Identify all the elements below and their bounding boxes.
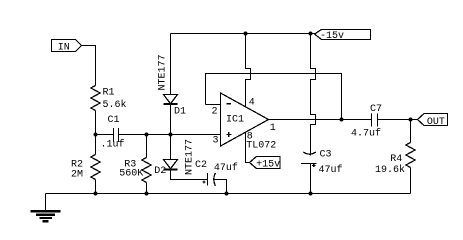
junction dot R2 bottom [93, 191, 97, 195]
junction dot pin4/-15v rail [243, 31, 247, 35]
svg-text:47uf: 47uf [319, 164, 343, 176]
junction dot R3 top [144, 132, 148, 136]
node -15v (power tag) [315, 30, 371, 43]
svg-text:4: 4 [249, 98, 255, 109]
wire horizontal rail y=134 from R2 node to C1 left plate [96, 134, 114, 136]
svg-text:D2: D2 [154, 166, 166, 177]
capacitor C3 (polarized) [301, 152, 316, 167]
svg-text:2M: 2M [71, 170, 83, 181]
wire C2 to ground rail [214, 180, 227, 194]
wire D2 anode from rail [170, 135, 172, 160]
wire C7 to OUT tag [378, 119, 418, 121]
junction dot C3/-15v rail [308, 31, 312, 35]
junction dot feedback/output [339, 117, 343, 121]
svg-text:D1: D1 [174, 107, 186, 118]
svg-text:R4: R4 [390, 154, 402, 165]
wire D1 cathode to y=134 rail [170, 105, 172, 135]
svg-text:C7: C7 [370, 104, 382, 115]
junction dot D1/D2 on rail [168, 132, 172, 136]
op-amp IC1 triangle [221, 93, 269, 146]
svg-text:NTE177: NTE177 [157, 54, 168, 90]
svg-text:4.7uf: 4.7uf [351, 128, 381, 140]
svg-text:-15v: -15v [320, 31, 344, 42]
wire D1 anode up to -15v rail [170, 34, 172, 95]
wire pin 4 up to -15v rail with hop over feedback [246, 34, 251, 107]
wire op-amp output to C7 [269, 119, 372, 121]
wire C1 right plate to op-amp pin 3 rail [119, 134, 221, 136]
resistor R2 [95, 135, 97, 155]
wire ground rail y=193 [46, 193, 411, 195]
svg-text:R1: R1 [103, 88, 115, 99]
svg-text:1: 1 [270, 123, 276, 134]
diode D1 [164, 95, 178, 105]
svg-text:2: 2 [212, 107, 218, 118]
wire pin 2 stub [206, 104, 221, 106]
wire top rail (-15v rail) y=33.5 [171, 33, 315, 35]
resistor R3 [146, 135, 148, 158]
svg-text:3: 3 [213, 136, 219, 147]
wire R1 bottom to node at y=134 [95, 111, 97, 135]
wire C3 bottom to ground rail [310, 164, 312, 194]
junction dot R4 top [408, 117, 412, 121]
svg-text:IN: IN [58, 42, 70, 53]
svg-text:47uf: 47uf [214, 162, 238, 174]
capacitor C2 (polarized) [202, 173, 215, 186]
junction dot R3 bottom [144, 191, 148, 195]
op-amp plus input mark [226, 132, 231, 137]
ground symbol [31, 194, 61, 222]
node IN (input tag) [52, 40, 82, 54]
wire pin 8 down to +15v tag [246, 133, 250, 163]
svg-text:IC1: IC1 [226, 115, 244, 126]
node OUT (output tag) [418, 114, 448, 128]
svg-text:C3: C3 [320, 150, 332, 161]
wire C3 top from -15v rail with two hops [311, 34, 316, 156]
svg-text:C2: C2 [195, 160, 207, 171]
svg-text:560K: 560K [119, 169, 143, 180]
capacitor C7 [372, 114, 378, 127]
junction dot at R1/R2/C1 node [93, 132, 97, 136]
node +15v (power tag) [250, 157, 281, 171]
svg-text:C1: C1 [108, 115, 120, 126]
op-amp minus input mark [227, 103, 232, 105]
resistor R4 [410, 120, 412, 143]
junction dot C2 ground [224, 191, 228, 195]
svg-text:19.6k: 19.6k [375, 164, 405, 176]
wire D2 cathode down and right to C2 [171, 170, 208, 180]
svg-text:.1uf: .1uf [101, 139, 125, 151]
svg-text:NTE177: NTE177 [185, 139, 196, 175]
svg-text:+15v: +15v [256, 160, 280, 171]
svg-text:5.6k: 5.6k [103, 99, 127, 111]
svg-text:OUT: OUT [427, 117, 445, 128]
resistor R1 [91, 86, 100, 111]
junction dot C3 ground [308, 191, 312, 195]
svg-text:8: 8 [247, 132, 253, 143]
capacitor C1 [114, 128, 119, 142]
wire feedback from output node up and left to pin 2 [206, 74, 342, 120]
wire IN tag to R1 top [82, 46, 96, 86]
diode D2 [164, 160, 178, 170]
